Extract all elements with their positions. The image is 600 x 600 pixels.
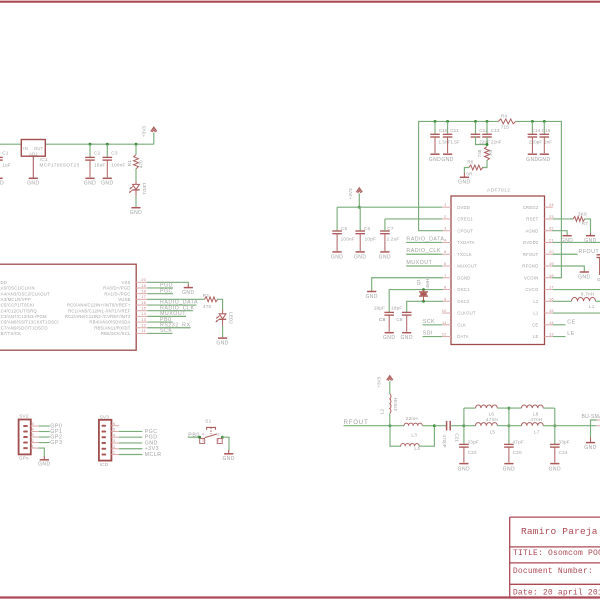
svg-text:GND: GND [458, 466, 470, 472]
svg-text:CPOUT: CPOUT [457, 228, 473, 233]
svg-text:R5: R5 [488, 149, 493, 155]
svg-text:OSC2: OSC2 [457, 299, 470, 304]
svg-text:23: 23 [549, 214, 554, 219]
svg-text:20: 20 [141, 277, 146, 282]
svg-text:GND: GND [538, 157, 550, 163]
svg-text:3: 3 [202, 438, 204, 443]
svg-text:GND: GND [441, 157, 453, 163]
svg-text:RB6/SCK/SCL: RB6/SCK/SCL [101, 331, 131, 336]
svg-text:GND: GND [561, 238, 573, 244]
svg-text:14: 14 [141, 311, 146, 316]
svg-text:9: 9 [444, 296, 446, 301]
svg-text:GND: GND [182, 290, 194, 296]
svg-text:RA1/D-/PGC: RA1/D-/PGC [104, 291, 130, 296]
svg-text:100nF: 100nF [341, 236, 355, 241]
svg-text:15: 15 [549, 308, 554, 313]
svg-text:+3V3: +3V3 [348, 188, 353, 199]
svg-text:GND: GND [379, 254, 391, 260]
svg-text:SCK: SCK [423, 319, 435, 325]
svg-text:L6: L6 [489, 411, 495, 416]
svg-text:LE: LE [533, 334, 539, 339]
svg-text:RB4/AN10/SDI/SDA: RB4/AN10/SDI/SDA [89, 320, 130, 325]
svg-text:13: 13 [549, 332, 554, 337]
svg-text:17: 17 [549, 285, 554, 290]
svg-text:GND: GND [331, 254, 343, 260]
svg-text:ADF7012: ADF7012 [487, 187, 510, 192]
svg-text:MUXOUT: MUXOUT [457, 264, 477, 269]
svg-text:13: 13 [141, 317, 146, 322]
svg-text:CVCO: CVCO [525, 287, 539, 292]
svg-text:RC0/AN4/C12IN+/INT0/VREF+: RC0/AN4/C12IN+/INT0/VREF+ [67, 303, 131, 308]
svg-text:GND: GND [429, 157, 441, 163]
svg-text:RC3/AN7/C12IN3-/PGM: RC3/AN7/C12IN3-/PGM [0, 314, 47, 319]
svg-text:22nF: 22nF [479, 139, 490, 144]
svg-text:GND: GND [365, 294, 377, 300]
svg-text:S1: S1 [205, 419, 211, 424]
svg-text:DVDD: DVDD [457, 205, 470, 210]
svg-text:TXCLK: TXCLK [457, 252, 472, 257]
svg-text:R6: R6 [467, 160, 474, 165]
svg-text:SV2: SV2 [19, 414, 29, 419]
svg-text:ICD: ICD [100, 462, 109, 467]
svg-text:0R: 0R [466, 171, 473, 176]
svg-text:RA0/D+/PGD: RA0/D+/PGD [103, 286, 130, 291]
svg-text:16: 16 [549, 296, 554, 301]
svg-text:GND: GND [400, 335, 412, 341]
svg-text:L3: L3 [411, 433, 417, 438]
svg-text:1: 1 [32, 443, 34, 448]
svg-text:2.2uF: 2.2uF [387, 236, 400, 241]
svg-text:RB5/AN11/RX/DT: RB5/AN11/RX/DT [94, 325, 130, 330]
svg-text:Q1: Q1 [416, 279, 421, 286]
svg-text:L8: L8 [533, 411, 539, 416]
svg-text:GND: GND [130, 210, 142, 216]
svg-text:470nH: 470nH [393, 398, 398, 412]
svg-text:R4: R4 [501, 114, 508, 119]
svg-text:VDD: VDD [0, 280, 7, 285]
svg-text:4MHz: 4MHz [425, 276, 430, 289]
svg-text:1.5F: 1.5F [450, 139, 460, 144]
svg-text:18: 18 [549, 273, 554, 278]
svg-text:470pF: 470pF [442, 434, 447, 447]
svg-text:OSC1: OSC1 [457, 287, 470, 292]
svg-text:LED1: LED1 [142, 183, 147, 195]
svg-text:RA5/OSC1/CLKIN: RA5/OSC1/CLKIN [0, 286, 35, 291]
svg-text:C2: C2 [94, 151, 101, 156]
svg-text:Document Number:: Document Number: [513, 567, 593, 576]
svg-text:16: 16 [141, 300, 146, 305]
svg-text:LE: LE [567, 331, 574, 337]
svg-text:DATA: DATA [457, 334, 469, 339]
svg-text:2nF: 2nF [544, 139, 552, 144]
svg-text:C20: C20 [513, 450, 522, 455]
svg-text:GND: GND [526, 157, 538, 163]
svg-text:RSET: RSET [526, 217, 538, 222]
svg-text:RC5/CCP1/T0CKI: RC5/CCP1/T0CKI [0, 303, 34, 308]
svg-text:RC2/AN6/C12IN2-/CVREF/INT2: RC2/AN6/C12IN2-/CVREF/INT2 [65, 314, 131, 319]
svg-text:19: 19 [141, 283, 146, 288]
svg-text:RC7/AN9/SDO/T1OSCO: RC7/AN9/SDO/T1OSCO [0, 325, 48, 330]
svg-text:L4: L4 [414, 446, 420, 451]
svg-text:15: 15 [141, 306, 146, 311]
svg-text:470: 470 [203, 304, 212, 309]
svg-text:SDI: SDI [423, 331, 433, 337]
svg-text:R1: R1 [127, 160, 132, 166]
svg-text:L2: L2 [533, 299, 539, 304]
svg-text:C14: C14 [532, 128, 541, 133]
svg-text:2: 2 [217, 432, 219, 437]
svg-text:3: 3 [113, 438, 115, 443]
svg-text:10: 10 [442, 308, 447, 313]
svg-text:7: 7 [444, 273, 446, 278]
svg-text:715: 715 [501, 124, 510, 129]
svg-text:24: 24 [549, 202, 554, 207]
svg-text:GND: GND [584, 238, 596, 244]
svg-text:R7: R7 [582, 221, 589, 226]
svg-text:C10: C10 [439, 128, 448, 133]
svg-text:RA3/MCLR/VPP: RA3/MCLR/VPP [0, 297, 31, 302]
svg-text:2: 2 [113, 444, 115, 449]
svg-text:11: 11 [442, 320, 446, 325]
svg-text:19: 19 [549, 261, 554, 266]
svg-text:11: 11 [141, 328, 145, 333]
svg-text:TXDATA: TXDATA [457, 240, 474, 245]
svg-text:VSS: VSS [121, 280, 130, 285]
svg-text:C7: C7 [387, 226, 394, 231]
svg-text:C15: C15 [542, 128, 551, 133]
svg-text:1: 1 [444, 202, 446, 207]
svg-text:MCP1700SOT23: MCP1700SOT23 [40, 162, 80, 167]
svg-text:5: 5 [32, 421, 34, 426]
svg-text:GND: GND [383, 335, 395, 341]
svg-text:GND: GND [222, 456, 234, 462]
svg-text:14: 14 [549, 320, 554, 325]
svg-text:RC1/AN5/C12IN1-/INT1/VREF: RC1/AN5/C12IN1-/INT1/VREF [68, 308, 131, 313]
svg-text:RFOUT: RFOUT [344, 419, 369, 426]
svg-text:C5: C5 [341, 226, 348, 231]
svg-text:CE: CE [567, 319, 575, 325]
svg-text:TITLE: Osomcom POC: TITLE: Osomcom POC [513, 549, 600, 558]
svg-text:L5: L5 [490, 430, 496, 435]
svg-text:+3V3: +3V3 [376, 376, 381, 387]
svg-text:AGND: AGND [525, 228, 538, 233]
svg-text:GND: GND [27, 181, 39, 187]
svg-text:1uF: 1uF [2, 163, 11, 168]
svg-text:C9: C9 [396, 317, 403, 322]
svg-text:CLK: CLK [457, 322, 466, 327]
svg-text:L1: L1 [533, 311, 539, 316]
svg-text:C24: C24 [559, 450, 568, 455]
svg-text:CE: CE [532, 322, 538, 327]
svg-text:RB7/TX/CK: RB7/TX/CK [0, 331, 21, 336]
svg-text:18pF: 18pF [374, 305, 385, 310]
svg-text:47pF: 47pF [513, 439, 524, 444]
svg-text:12: 12 [442, 332, 447, 337]
svg-text:6: 6 [444, 261, 446, 266]
svg-text:C8: C8 [379, 317, 386, 322]
svg-text:3: 3 [444, 226, 446, 231]
svg-text:MCLR: MCLR [145, 452, 162, 458]
svg-text:GND: GND [0, 181, 4, 187]
svg-text:C6: C6 [364, 226, 371, 231]
svg-text:47nH: 47nH [486, 417, 498, 422]
svg-text:L1: L1 [589, 304, 595, 309]
svg-text:GND: GND [38, 462, 50, 468]
svg-text:748: 748 [477, 149, 482, 157]
svg-text:VUSB: VUSB [118, 297, 130, 302]
svg-text:GND: GND [503, 466, 515, 472]
svg-text:VCOIN: VCOIN [524, 275, 539, 280]
svg-text:RFOUT: RFOUT [579, 249, 600, 255]
svg-text:33pF: 33pF [558, 439, 569, 444]
svg-text:C1: C1 [2, 151, 9, 156]
svg-text:8.7nH: 8.7nH [581, 292, 595, 297]
svg-text:Date: 20 april 2013: Date: 20 april 2013 [513, 589, 600, 598]
svg-text:1: 1 [113, 450, 115, 455]
svg-text:CLKOUT: CLKOUT [457, 311, 476, 316]
svg-text:5: 5 [444, 249, 446, 254]
svg-text:SCK: SCK [160, 328, 172, 334]
svg-text:22nF: 22nF [491, 139, 502, 144]
svg-text:100nF: 100nF [111, 163, 125, 168]
svg-text:GP3: GP3 [50, 440, 62, 446]
svg-text:C13: C13 [491, 128, 500, 133]
svg-text:RA4/AN3/OSC2/CLKOUT: RA4/AN3/OSC2/CLKOUT [0, 291, 50, 296]
svg-text:MUXOUT: MUXOUT [406, 260, 432, 266]
svg-text:ADJ: ADJ [29, 151, 38, 156]
svg-text:GND: GND [216, 341, 228, 347]
svg-text:C3: C3 [111, 151, 118, 156]
svg-text:2: 2 [32, 438, 34, 443]
svg-text:CREG2: CREG2 [523, 205, 539, 210]
svg-text:RADIO_CLK: RADIO_CLK [406, 248, 441, 254]
svg-text:RFGND: RFGND [522, 264, 538, 269]
svg-text:10uF: 10uF [94, 163, 105, 168]
svg-text:GPs: GPs [19, 456, 29, 461]
svg-text:PGC: PGC [160, 288, 173, 294]
svg-text:C21: C21 [454, 433, 459, 442]
svg-text:GND: GND [84, 181, 96, 187]
svg-text:20: 20 [549, 249, 554, 254]
svg-text:R3: R3 [203, 293, 210, 298]
svg-text:220pF: 220pF [529, 139, 542, 144]
svg-text:470: 470 [138, 160, 143, 168]
svg-text:47nH: 47nH [530, 417, 542, 422]
svg-text:GND: GND [549, 466, 561, 472]
svg-text:GND: GND [584, 445, 596, 451]
svg-text:5: 5 [113, 427, 115, 432]
svg-text:RADIO_DATA: RADIO_DATA [406, 236, 444, 242]
svg-text:12: 12 [141, 323, 146, 328]
svg-text:SV3: SV3 [100, 415, 110, 420]
svg-text:+3V3: +3V3 [141, 126, 146, 137]
svg-text:18pF: 18pF [391, 305, 402, 310]
svg-text:CREG1: CREG1 [457, 217, 473, 222]
svg-text:22nH: 22nH [406, 416, 418, 421]
svg-text:L2: L2 [379, 409, 384, 415]
svg-text:17: 17 [141, 294, 146, 299]
svg-text:OUT: OUT [34, 146, 44, 151]
svg-text:BU-SMA: BU-SMA [582, 414, 600, 420]
svg-text:RFOUT: RFOUT [523, 252, 539, 257]
svg-text:RC4/C12OUT/SRQ: RC4/C12OUT/SRQ [0, 308, 37, 313]
svg-text:DGND: DGND [457, 275, 470, 280]
svg-text:18: 18 [141, 288, 146, 293]
svg-text:2: 2 [444, 214, 446, 219]
svg-text:Ramiro Pareja: Ramiro Pareja [521, 526, 598, 537]
svg-text:22: 22 [549, 226, 554, 231]
svg-text:LED2: LED2 [229, 312, 234, 324]
svg-text:GND: GND [354, 254, 366, 260]
svg-text:RC6/AN8/SS/T13CKI/T1OSCI: RC6/AN8/SS/T13CKI/T1OSCI [0, 320, 59, 325]
svg-text:C11: C11 [450, 128, 459, 133]
svg-text:1.5nF: 1.5nF [439, 139, 451, 144]
svg-text:L7: L7 [534, 430, 540, 435]
svg-text:10pF: 10pF [365, 236, 376, 241]
svg-text:GND: GND [101, 181, 113, 187]
svg-text:21: 21 [549, 237, 554, 242]
svg-text:1: 1 [217, 438, 219, 443]
svg-text:C22: C22 [468, 450, 477, 455]
svg-text:33pF: 33pF [468, 439, 479, 444]
svg-text:IN: IN [23, 146, 28, 151]
svg-text:DVDD2: DVDD2 [523, 240, 539, 245]
svg-text:3K9: 3K9 [578, 211, 587, 216]
svg-text:3: 3 [32, 432, 34, 437]
svg-text:8: 8 [444, 285, 446, 290]
svg-text:GND: GND [458, 180, 470, 186]
svg-text:GND: GND [578, 274, 590, 280]
svg-text:6: 6 [113, 421, 115, 426]
